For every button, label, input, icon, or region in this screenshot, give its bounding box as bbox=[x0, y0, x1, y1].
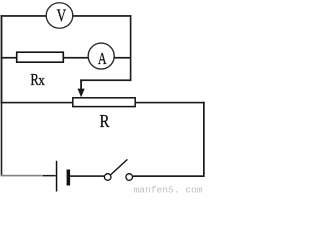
battery BT1 negative short thick plate bbox=[67, 170, 71, 186]
voltmeter U1 V bbox=[46, 3, 73, 29]
wire: bottom left gray segment to left bus bbox=[1, 175, 43, 177]
wire: bottom from right corner to switch bbox=[133, 175, 204, 177]
wire: right vertical bus bbox=[203, 102, 205, 177]
wire: top from left corner to voltmeter bbox=[1, 15, 46, 17]
battery BT1 positive long plate bbox=[56, 161, 58, 192]
switch S right contact bbox=[126, 174, 133, 181]
svg-text:V: V bbox=[57, 7, 66, 26]
svg-text:manfen5. com: manfen5. com bbox=[134, 184, 203, 194]
wire: battery to switch bbox=[70, 175, 104, 177]
rheostat wiper arrow head bbox=[78, 89, 85, 98]
resistor Rx box bbox=[17, 52, 64, 62]
wire: ammeter to right vertical bbox=[114, 57, 130, 59]
wire: resistor Rx to ammeter bbox=[63, 57, 88, 59]
wire: left bus to rheostat left terminal bbox=[1, 102, 73, 104]
wire: wiper vertical shaft bbox=[80, 79, 82, 90]
wire: rheostat right terminal to right edge bbox=[135, 102, 205, 104]
svg-text:A: A bbox=[98, 50, 107, 69]
wire: upper right vertical (top wire down to ammeter branch and elbow) bbox=[130, 15, 132, 81]
wire: left vertical lower segment bbox=[1, 103, 3, 176]
switch S pivot contact bbox=[104, 174, 111, 181]
wire: battery left short black stub bbox=[43, 175, 56, 177]
svg-text:R: R bbox=[100, 110, 110, 131]
wire: elbow horizontal to wiper bbox=[80, 79, 131, 81]
switch S lever bbox=[111, 159, 128, 174]
svg-text:x: x bbox=[38, 73, 45, 89]
wire: top from voltmeter to right elbow bbox=[73, 15, 131, 17]
wire: left vertical bus bbox=[1, 15, 3, 103]
rheostat R box bbox=[73, 98, 135, 107]
wire: row2 from left bus to resistor Rx bbox=[1, 57, 17, 59]
ammeter U2 A bbox=[88, 43, 114, 69]
